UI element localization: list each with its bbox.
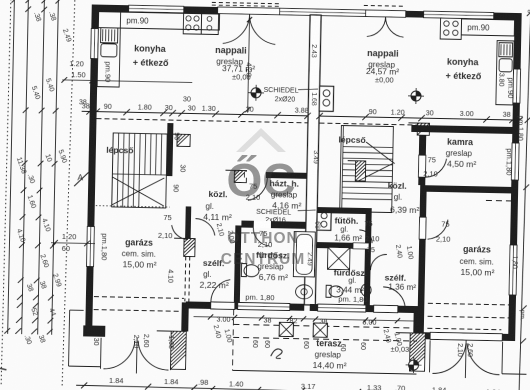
bathtub (293, 232, 315, 277)
counter band top-right kitchen (461, 19, 514, 36)
wall bottom of hazt.h (241, 221, 306, 229)
wall left of kozl / szelf (185, 206, 191, 238)
toilet right bath (329, 286, 343, 297)
small appliance box (201, 13, 218, 34)
door szelf-kozl arc (195, 219, 215, 236)
right garage top wall (420, 185, 514, 193)
dashed wall line under nappali (96, 119, 307, 123)
sink left bath (295, 285, 312, 299)
kamra left wall (418, 125, 426, 185)
wall: top exterior (92, 4, 522, 19)
front window furdosz left (238, 302, 290, 310)
beam over nappali opening (white band) (280, 8, 366, 16)
door arcs terrace left (double leaf) (223, 14, 250, 44)
front door opening szelf left (211, 302, 235, 309)
terasz pillar 2 (313, 323, 327, 337)
dotted line under stairs (96, 206, 170, 207)
garage door arcs left (103, 340, 134, 369)
sink right kitchen (499, 59, 512, 72)
shower with X (328, 247, 350, 269)
stair direction diagonals (112, 177, 165, 206)
kamra door opening and arc (418, 155, 425, 177)
dashed rows right garage door (427, 328, 501, 329)
hatched pier right of stairs (177, 134, 190, 146)
dotted property line at very left (1, 0, 11, 385)
wall: left exterior (85, 4, 99, 334)
stairs left unit (112, 133, 167, 208)
dish rack right kitchen (499, 43, 513, 57)
wall: house front left unit (186, 301, 305, 310)
sink left kitchen (101, 44, 117, 57)
wall: right garage front (417, 332, 511, 341)
squiggle mark on terasz (271, 349, 282, 359)
wall between right house front and garage (413, 306, 421, 336)
wall: right unit house front (310, 304, 420, 313)
front window furdosz right (318, 304, 366, 312)
hatched pier right garage front (409, 333, 425, 371)
stairs right unit (340, 126, 394, 213)
garage dashed lintel lines (94, 297, 184, 299)
wall right of stairs (166, 123, 173, 176)
dish rack left kitchen (101, 28, 118, 43)
counter right wall (496, 41, 514, 105)
kitchen counter left (97, 12, 121, 87)
terasz pillar 1 (279, 322, 293, 336)
door hazt.h with arc (244, 172, 266, 178)
hatched pier left garage front (170, 331, 186, 369)
wall between garage and house front (181, 302, 189, 331)
hatched pier in right stairs (355, 161, 365, 181)
dotted boundary line far left (62, 0, 75, 386)
stair diagonals right (366, 142, 395, 164)
window konyha right in top wall (424, 11, 494, 19)
window pm.1,80 kamra right wall (511, 143, 519, 180)
window pm.90 konyha left in top wall (129, 5, 184, 13)
door opening nappali left terrace (218, 7, 280, 15)
apron line bottom-right (502, 373, 526, 375)
hatched pier kamra corner (417, 123, 429, 135)
window garage right wall (509, 245, 517, 295)
door kozl-garage right (419, 217, 426, 239)
wall left of furdosz (234, 225, 242, 303)
left margin dimension chains (8, 0, 15, 334)
wall top of hazt.h (236, 171, 307, 178)
futoh walls (318, 207, 372, 214)
terasz elevation marker (409, 360, 419, 370)
dashes in right garage (486, 199, 512, 202)
dashed wall szelf-garage (184, 256, 187, 301)
hatched pier at kozl corner (234, 170, 246, 182)
bottom dimension row (76, 385, 526, 390)
stove left unit (183, 13, 201, 34)
wall: central party wall (304, 15, 321, 305)
chimney SCHIEDEL 2xO16 (317, 210, 331, 230)
window pm.1,80 garage in left wall (87, 226, 95, 266)
door garage-kozl arc (171, 225, 188, 239)
dimension row under house front (194, 317, 418, 321)
garage door opening right (430, 332, 502, 340)
garage door arcs right (432, 343, 466, 374)
door arcs terrace right (367, 17, 386, 37)
chimney SCHIEDEL 2xO20 (319, 86, 333, 111)
kamra top wall (411, 125, 512, 134)
furdosz right walls (317, 242, 371, 249)
sink right bath circle (361, 284, 371, 296)
elevation marker nappali left (251, 88, 261, 98)
dashed lintel above right terrace door (364, 4, 406, 7)
rotated dim 4.20 konyha with line (248, 16, 250, 113)
window pm.90 konyha right wall (513, 69, 521, 103)
front door opening szelf right (374, 305, 398, 312)
door futoh arc (359, 230, 372, 243)
dashed lintel above left terrace door (212, 2, 280, 3)
watermark Otthon Centrum logo (221, 128, 306, 268)
right garage dashed lintel (428, 303, 509, 305)
door opening nappali right (366, 10, 406, 17)
apron outline bottom-left (69, 310, 70, 366)
toilet left bath (244, 265, 259, 277)
wall: left garage front (83, 325, 105, 336)
dimension line row under top rooms (82, 111, 308, 116)
wall: right exterior (508, 13, 522, 341)
stove right unit (440, 18, 461, 39)
margin ticks (12, 0, 18, 3)
right garage left wall (417, 191, 426, 335)
szelf right door arc (kozl entry) (371, 254, 387, 270)
terasz dashed outline (233, 324, 417, 328)
szelf right front door arc (383, 287, 406, 310)
door furdosz left in hazt.h wall (253, 221, 271, 228)
elevation marker nappali right (411, 91, 421, 101)
right margin dimension line (519, 9, 530, 390)
hatched pier szelf corner (184, 238, 195, 256)
window pm.90 konyha in left wall (91, 28, 99, 58)
counter band top-left kitchen (98, 12, 219, 30)
